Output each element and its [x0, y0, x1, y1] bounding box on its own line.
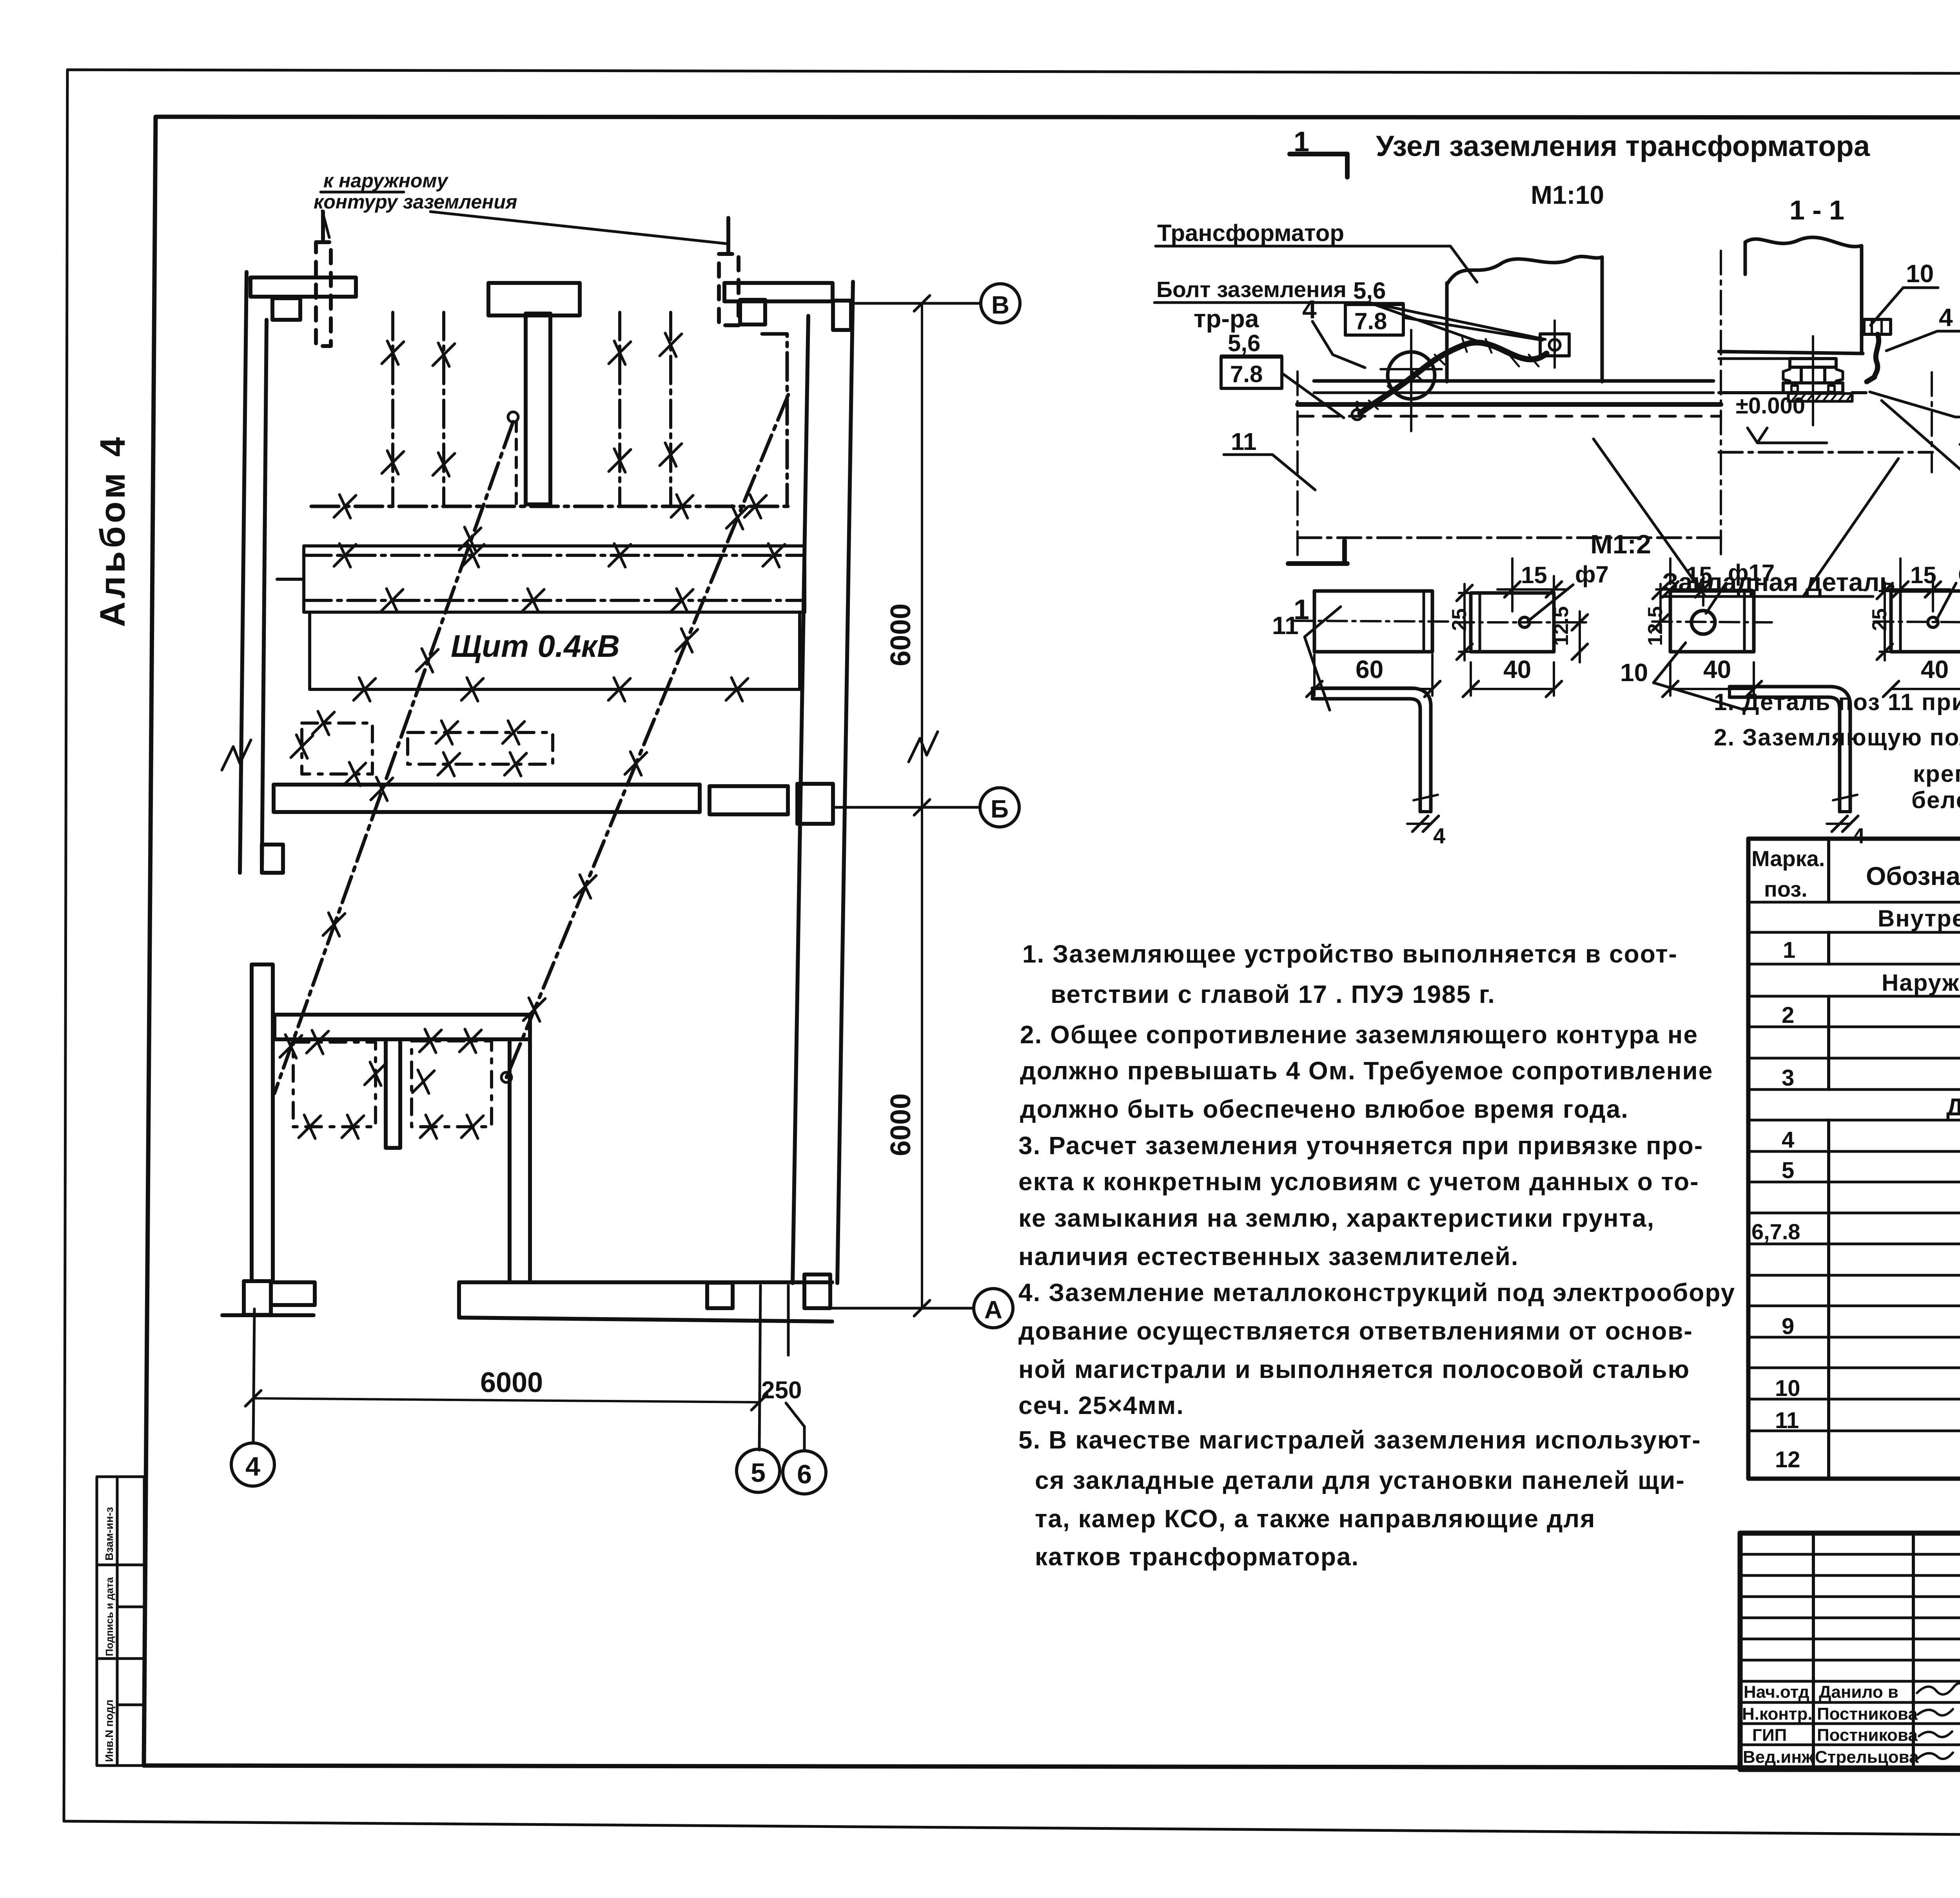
- svg-text:4: 4: [1939, 303, 1953, 332]
- leader to right electrode: [430, 212, 728, 244]
- column line марка: [1827, 839, 1830, 1479]
- svg-text:5: 5: [751, 1458, 766, 1488]
- svg-text:10: 10: [1620, 658, 1648, 687]
- svg-text:дование осуществляется ответ: дование осуществляется ответвлениями от …: [1018, 1317, 1693, 1345]
- svg-text:2. Заземляющую полосу при прок: 2. Заземляющую полосу при прокладке по с…: [1714, 724, 1960, 750]
- plate with ф17: [1670, 591, 1754, 652]
- svg-text:ветствии с главой 17 . ПУЭ: ветствии с главой 17 . ПУЭ 1985 г.: [1051, 980, 1495, 1008]
- centreline right: [1720, 251, 1722, 560]
- svg-text:Узел заземления трансформатора: Узел заземления трансформатора: [1376, 130, 1870, 162]
- column: I-beam web: [526, 314, 550, 504]
- stamp verticals: [1813, 1533, 1960, 1769]
- svg-text:10: 10: [1906, 259, 1934, 288]
- svg-text:40: 40: [1921, 655, 1949, 683]
- break mark right wall: [909, 732, 938, 762]
- svg-text:Внутренний контур заземления: Внутренний контур заземления: [1878, 905, 1960, 932]
- svg-text:ся закладные детали для ус: ся закладные детали для установки панеле…: [1035, 1466, 1685, 1494]
- signature rows: [1742, 1682, 1919, 1767]
- axis line А: [831, 1307, 974, 1310]
- svg-text:1. Заземляющее устройство в: 1. Заземляющее устройство выполняется в …: [1022, 940, 1678, 968]
- dashed equipment box room1: [293, 1042, 376, 1127]
- axis circle Б: [980, 788, 1019, 827]
- svg-text:4: 4: [1302, 295, 1317, 324]
- svg-text:екта к конкретным условиям: екта к конкретным условиям с учетом данн…: [1018, 1167, 1699, 1196]
- svg-text:к наружному: к наружному: [323, 170, 448, 192]
- svg-text:3: 3: [1782, 1065, 1794, 1091]
- svg-text:7.8: 7.8: [1354, 308, 1387, 334]
- svg-text:Болт заземления: Болт заземления: [1156, 277, 1347, 302]
- axis circle 4: [231, 1443, 274, 1486]
- svg-text:60: 60: [1356, 655, 1383, 683]
- wall: small block below: [272, 298, 300, 320]
- svg-text:25: 25: [1448, 608, 1471, 631]
- wall: top-right band: [724, 283, 833, 301]
- svg-text:15: 15: [1521, 562, 1547, 588]
- svg-text:1 - 1: 1 - 1: [1789, 195, 1844, 225]
- wall: lower rooms right wall outer: [528, 1015, 532, 1282]
- wall: block right of electrode: [740, 300, 765, 324]
- svg-text:Постникова: Постникова: [1817, 1704, 1918, 1724]
- break mark left wall: [222, 740, 251, 770]
- svg-text:должно быть обеспечено влюб: должно быть обеспечено влюбое время года…: [1020, 1095, 1629, 1123]
- svg-text:12.5: 12.5: [1550, 606, 1573, 646]
- diagonal bus run 1: [274, 422, 513, 1093]
- svg-text:Инв.N подл: Инв.N подл: [103, 1700, 115, 1762]
- electrode drop line 2: [442, 312, 445, 506]
- rail clamp: [1790, 359, 1836, 367]
- axis circle В: [981, 284, 1020, 323]
- svg-text:М1:10: М1:10: [1531, 180, 1604, 209]
- transformer body (cut view): [1447, 256, 1602, 285]
- axis circle 6: [783, 1451, 826, 1494]
- svg-text:ф7: ф7: [1575, 561, 1609, 587]
- svg-text:тр-ра: тр-ра: [1194, 305, 1259, 333]
- bottom dimension line: [253, 1398, 759, 1402]
- svg-text:белей поз.12: белей поз.12: [1911, 787, 1960, 813]
- plate 11 (60x25): [1314, 591, 1432, 652]
- svg-text:5: 5: [1782, 1158, 1794, 1183]
- svg-text:4: 4: [245, 1452, 260, 1481]
- svg-text:ф7: ф7: [1958, 560, 1960, 586]
- wall: room divider T: [386, 1039, 400, 1148]
- svg-text:11: 11: [1272, 611, 1299, 640]
- svg-text:Данило в: Данило в: [1819, 1682, 1898, 1702]
- dashed box A below panels: [302, 723, 372, 774]
- bent strip поз.10 side view: [1730, 687, 1850, 812]
- svg-text:В: В: [991, 291, 1009, 319]
- svg-text:6000: 6000: [885, 1093, 916, 1156]
- wall: bottom-left stub: [271, 1282, 315, 1305]
- svg-text:4: 4: [1782, 1127, 1794, 1153]
- wall: middle band left: [274, 785, 700, 812]
- svg-text:А: А: [984, 1296, 1002, 1324]
- svg-text:ной магистрали и выполняетс: ной магистрали и выполняется полосовой с…: [1018, 1355, 1690, 1383]
- cut mark top: [1290, 152, 1347, 156]
- svg-text:1: 1: [1294, 126, 1309, 158]
- label underline: [321, 191, 404, 194]
- svg-text:11: 11: [1231, 428, 1257, 455]
- wall: left inner line upper: [262, 320, 267, 873]
- dashed box B below panels: [408, 732, 553, 764]
- svg-text:Щит 0.4кВ: Щит 0.4кВ: [451, 629, 620, 663]
- wall: lower rooms top band: [274, 1015, 530, 1039]
- pier at axis А: [804, 1274, 830, 1308]
- svg-text:5,6: 5,6: [1228, 330, 1260, 356]
- row lines: [1748, 902, 1960, 1431]
- pier at axis Б: [797, 784, 833, 824]
- svg-text:1. Деталь поз 11 приварить к: 1. Деталь поз 11 приварить к закладной д…: [1714, 689, 1960, 715]
- panel row 2 with label: [310, 612, 800, 689]
- wire 1-1: [1867, 334, 1879, 382]
- svg-text:5,6: 5,6: [1353, 277, 1386, 304]
- svg-text:250: 250: [761, 1377, 802, 1404]
- svg-text:катков трансформатора.: катков трансформатора.: [1035, 1543, 1359, 1571]
- wall: left outer line: [240, 272, 247, 873]
- svg-text:6000: 6000: [480, 1367, 543, 1398]
- door jamb line right: [787, 1285, 790, 1355]
- svg-text:крепить через 0.6м посредством: крепить через 0.6м посредством забивки б…: [1913, 761, 1960, 787]
- axis 4 line: [253, 1309, 254, 1443]
- plate 40x25 with ф7 (left): [1471, 593, 1554, 652]
- vertical dimension line В-А: [921, 303, 923, 1308]
- svg-text:та, камер КСО, а также нап: та, камер КСО, а также направляющие для: [1035, 1505, 1595, 1533]
- signature squiggles: [1917, 1683, 1960, 1759]
- svg-text:Взам-ин-з: Взам-ин-з: [103, 1507, 115, 1561]
- stamp horizontals left grid: [1740, 1554, 1960, 1745]
- svg-text:6: 6: [797, 1459, 812, 1489]
- rail lines: [1314, 379, 1713, 383]
- wall: top-left block: [250, 277, 356, 297]
- X marks on main bus: [334, 495, 356, 518]
- electrode drop line 3: [618, 312, 621, 506]
- floor line 1-1: [1719, 391, 1788, 394]
- svg-text:6000: 6000: [885, 604, 916, 666]
- electrode drop line 4: [669, 312, 672, 506]
- block on bottom wall: [707, 1283, 733, 1308]
- bracket поз.10: [1864, 319, 1891, 334]
- axis line В: [854, 302, 981, 305]
- svg-text:4. Заземление металлоконстру: 4. Заземление металлоконструкций под эле…: [1018, 1278, 1735, 1307]
- wall: right outer line: [837, 282, 853, 1283]
- rail 1-1: [1719, 352, 1863, 353]
- left stamp strip: [97, 1477, 144, 1766]
- svg-text:3. Расчет заземления уточня: 3. Расчет заземления уточняется при прив…: [1018, 1131, 1703, 1160]
- svg-text:Альбом 4: Альбом 4: [93, 434, 132, 627]
- svg-text:2. Общее сопротивление зазе: 2. Общее сопротивление заземляющего конт…: [1020, 1021, 1698, 1049]
- svg-text:Детали заземления: Детали заземления: [1946, 1094, 1960, 1121]
- svg-text:сеч. 25×4мм.: сеч. 25×4мм.: [1018, 1391, 1184, 1419]
- table outer border: [1748, 839, 1960, 1479]
- drop to diag1 with node circle: [515, 421, 518, 506]
- 1-1 body (cut view): [1745, 237, 1862, 247]
- wall: left end cap at door: [262, 845, 283, 873]
- node circle at diag2 end: [501, 1072, 512, 1082]
- svg-text:ГИП: ГИП: [1752, 1726, 1787, 1745]
- svg-text:4: 4: [1853, 823, 1865, 848]
- svg-text:10: 10: [1775, 1376, 1800, 1401]
- svg-text:1: 1: [1783, 937, 1795, 963]
- ground bus: main horizontal run: [311, 505, 788, 508]
- dashed equipment box room2: [412, 1041, 492, 1127]
- braid ticks: [1369, 338, 1539, 409]
- wall: lower rooms right wall inner: [508, 1039, 512, 1282]
- svg-text:Б: Б: [991, 795, 1009, 823]
- svg-text:6,7.8: 6,7.8: [1751, 1219, 1800, 1244]
- svg-text:25: 25: [1868, 608, 1891, 631]
- leader label: к наружному контуру заземления: [314, 170, 517, 213]
- embedded plate hatched: [1788, 393, 1852, 401]
- wall: left lower段: [252, 964, 273, 1281]
- svg-text:5. В качестве магистралей з: 5. В качестве магистралей заземления исп…: [1018, 1426, 1701, 1454]
- svg-text:11: 11: [1775, 1408, 1799, 1433]
- svg-text:Нач.отд: Нач.отд: [1744, 1682, 1809, 1702]
- svg-text:9: 9: [1782, 1314, 1794, 1339]
- title block border: [1740, 1533, 1960, 1769]
- axis circle А: [974, 1289, 1013, 1328]
- svg-text:Наружный контур заземления: Наружный контур заземления: [1882, 970, 1960, 996]
- pier at axis В: [833, 301, 851, 330]
- grounding bolt assembly: [1540, 334, 1569, 356]
- panel row 1 (закладные): [304, 546, 805, 612]
- X marks on electrode drops: [382, 341, 404, 364]
- svg-text:Н.контр.: Н.контр.: [1742, 1704, 1813, 1724]
- svg-text:40: 40: [1503, 655, 1531, 683]
- cut mark bottom: [1288, 561, 1347, 566]
- svg-text:наличия естественных заземли: наличия естественных заземлителей.: [1018, 1242, 1519, 1271]
- axis circle 5: [737, 1449, 780, 1492]
- wall: bottom band: [459, 1282, 832, 1317]
- svg-text:поз.: поз.: [1764, 877, 1808, 901]
- datum dash-dot 1-1: [1719, 451, 1933, 454]
- svg-text:12: 12: [1775, 1447, 1800, 1472]
- svg-text:Обозначение: Обозначение: [1866, 861, 1960, 890]
- svg-text:контуру заземления: контуру заземления: [314, 191, 517, 213]
- plate 40x25 with ф7 (right): [1891, 591, 1960, 652]
- svg-text:2: 2: [1782, 1002, 1794, 1028]
- svg-text:ф17: ф17: [1728, 560, 1775, 586]
- axis 6 leader: [786, 1403, 804, 1450]
- leader to left electrode: [322, 211, 329, 237]
- wall: right inner line: [793, 316, 808, 1283]
- diagonal bus run 2: [506, 395, 788, 1077]
- transformer roller: [1388, 352, 1435, 399]
- svg-text:Трансформатор: Трансформатор: [1157, 220, 1344, 246]
- bottom datum dash-dot: [1298, 537, 1721, 539]
- svg-text:40: 40: [1703, 655, 1731, 683]
- svg-text:Постникова: Постникова: [1817, 1726, 1918, 1745]
- svg-text:М1:2: М1:2: [1590, 529, 1651, 559]
- header texts: [1751, 846, 1960, 901]
- electrode drop line 1: [391, 312, 394, 506]
- axis line Б: [834, 806, 980, 809]
- wire terminal: [1352, 410, 1362, 420]
- pier bottom-left at axis 4: [244, 1281, 271, 1315]
- svg-text:должно превышать 4 Ом. Требу: должно превышать 4 Ом. Требуемое сопроти…: [1020, 1057, 1713, 1085]
- svg-text:Подпись и дата: Подпись и дата: [103, 1577, 115, 1656]
- left earthing electrode (dashed riser): [321, 212, 325, 242]
- svg-text:4: 4: [1433, 823, 1445, 848]
- wall: middle band right: [710, 786, 788, 814]
- door jamb line axis5: [759, 1285, 760, 1450]
- bent strip поз.11 side view: [1312, 688, 1431, 812]
- right earthing electrode (dashed riser): [726, 218, 730, 254]
- wall: bottom-left outer line: [222, 1313, 314, 1317]
- svg-text:ке замыкания на землю, хара: ке замыкания на землю, характеристики гр…: [1018, 1204, 1655, 1232]
- svg-text:Вед.инж: Вед.инж: [1743, 1748, 1814, 1767]
- ground bus: right riser: [762, 334, 787, 506]
- svg-text:7.8: 7.8: [1230, 361, 1263, 387]
- svg-text:Стрельцова: Стрельцова: [1815, 1748, 1919, 1767]
- svg-text:Марка.: Марка.: [1751, 846, 1825, 871]
- centreline left: [1296, 372, 1299, 560]
- flexible ground wire: [1360, 343, 1546, 413]
- column: I-beam top flange: [488, 283, 580, 315]
